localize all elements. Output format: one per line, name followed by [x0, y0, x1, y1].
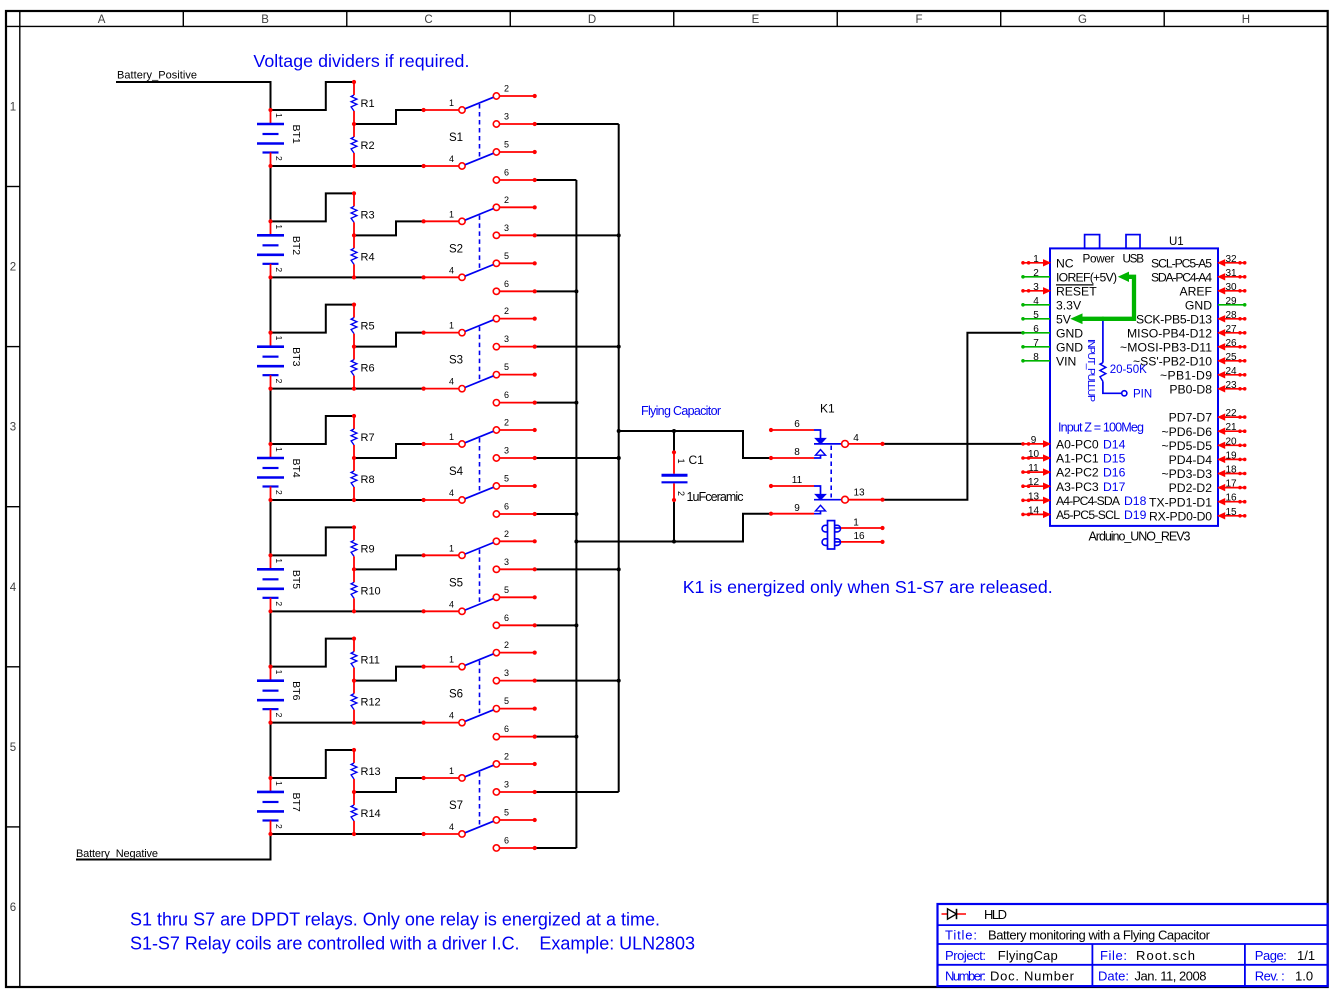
svg-text:18: 18: [1225, 465, 1237, 476]
svg-text:Input Z = 100Meg: Input Z = 100Meg: [1058, 421, 1144, 435]
svg-text:4: 4: [10, 582, 17, 594]
svg-text:1: 1: [449, 766, 454, 776]
svg-text:Battery_Negative: Battery_Negative: [76, 848, 158, 860]
svg-text:5V: 5V: [1056, 312, 1072, 326]
svg-text:20: 20: [1225, 436, 1237, 447]
svg-text:4: 4: [449, 265, 454, 275]
svg-text:F: F: [915, 14, 922, 26]
svg-text:BT5: BT5: [290, 570, 302, 589]
svg-text:E: E: [752, 14, 760, 26]
svg-text:2: 2: [676, 491, 686, 496]
svg-text:D17: D17: [1103, 480, 1126, 494]
svg-text:Battery monitoring with a Flyi: Battery monitoring with a Flying Capacit…: [988, 928, 1211, 943]
svg-text:4: 4: [1033, 296, 1039, 307]
svg-text:4: 4: [449, 377, 454, 387]
svg-text:3: 3: [504, 779, 509, 789]
svg-text:BT2: BT2: [290, 236, 302, 255]
svg-text:4: 4: [449, 822, 454, 832]
svg-text:RX-PD0-D0: RX-PD0-D0: [1149, 509, 1212, 523]
svg-text:6: 6: [1033, 324, 1039, 335]
svg-text:D15: D15: [1103, 452, 1126, 466]
svg-text:6: 6: [504, 501, 509, 511]
svg-text:1: 1: [853, 518, 859, 529]
svg-text:13: 13: [853, 488, 865, 499]
svg-text:31: 31: [1225, 268, 1237, 279]
svg-text:D18: D18: [1124, 494, 1147, 508]
svg-text:Battery_Positive: Battery_Positive: [117, 70, 197, 82]
svg-text:1: 1: [274, 558, 284, 563]
svg-text:Arduino_UNO_REV3: Arduino_UNO_REV3: [1089, 530, 1191, 544]
svg-text:2: 2: [504, 417, 509, 427]
svg-text:SCK-PB5-D13: SCK-PB5-D13: [1136, 312, 1212, 326]
svg-text:PD7-D7: PD7-D7: [1169, 411, 1213, 425]
svg-text:D19: D19: [1124, 508, 1147, 522]
svg-text:K1 is energized only when S1-S: K1 is energized only when S1-S7 are rele…: [683, 577, 1053, 597]
svg-text:5: 5: [504, 140, 509, 150]
svg-text:5: 5: [504, 807, 509, 817]
svg-text:2: 2: [274, 379, 284, 384]
svg-text:19: 19: [1225, 450, 1237, 461]
svg-text:5: 5: [504, 585, 509, 595]
svg-text:G: G: [1078, 14, 1087, 26]
svg-text:1: 1: [449, 321, 454, 331]
svg-text:6: 6: [504, 613, 509, 623]
svg-text:A4-PC4-SDA: A4-PC4-SDA: [1056, 494, 1121, 508]
svg-text:6: 6: [794, 419, 800, 430]
svg-text:3: 3: [504, 334, 509, 344]
svg-text:S1-S7 Relay coils are controll: S1-S7 Relay coils are controlled with a …: [130, 933, 695, 953]
svg-text:16: 16: [1225, 493, 1237, 504]
svg-text:IOREF(+5V): IOREF(+5V): [1056, 270, 1117, 284]
svg-text:R8: R8: [361, 474, 375, 486]
svg-text:R2: R2: [361, 140, 375, 152]
svg-text:BT6: BT6: [290, 681, 302, 700]
svg-text:3: 3: [504, 557, 509, 567]
svg-text:16: 16: [853, 531, 865, 542]
svg-text:2: 2: [274, 156, 284, 161]
svg-text:1: 1: [449, 98, 454, 108]
svg-text:5: 5: [504, 696, 509, 706]
svg-text:27: 27: [1225, 324, 1237, 335]
svg-text:2: 2: [504, 529, 509, 539]
svg-text:29: 29: [1225, 296, 1237, 307]
svg-text:5: 5: [504, 473, 509, 483]
svg-text:5: 5: [504, 251, 509, 261]
svg-text:1: 1: [274, 447, 284, 452]
svg-text:BT4: BT4: [290, 458, 302, 477]
svg-text:1: 1: [274, 224, 284, 229]
svg-text:3: 3: [504, 112, 509, 122]
svg-text:C1: C1: [689, 453, 705, 467]
svg-text:R9: R9: [361, 543, 375, 555]
svg-text:BT1: BT1: [290, 125, 302, 144]
svg-text:2: 2: [504, 306, 509, 316]
svg-text:2: 2: [504, 751, 509, 761]
svg-text:6: 6: [504, 724, 509, 734]
svg-text:20-50K: 20-50K: [1110, 364, 1147, 376]
svg-text:5: 5: [504, 362, 509, 372]
svg-text:3: 3: [504, 668, 509, 678]
svg-text:INPUT_PULLUP: INPUT_PULLUP: [1085, 339, 1097, 402]
svg-text:17: 17: [1225, 479, 1237, 490]
svg-text:1: 1: [274, 781, 284, 786]
svg-text:2: 2: [274, 713, 284, 718]
svg-text:PD4-D4: PD4-D4: [1169, 453, 1213, 467]
svg-text:S5: S5: [449, 577, 463, 589]
svg-text:1/1: 1/1: [1297, 948, 1315, 963]
svg-text:A2-PC2: A2-PC2: [1056, 466, 1099, 480]
svg-text:4: 4: [449, 488, 454, 498]
svg-text:25: 25: [1225, 352, 1237, 363]
svg-text:R6: R6: [361, 363, 375, 375]
svg-text:3: 3: [504, 445, 509, 455]
svg-text:S6: S6: [449, 689, 463, 701]
svg-text:~PD5-D5: ~PD5-D5: [1162, 439, 1213, 453]
svg-text:9: 9: [794, 503, 800, 514]
svg-text:~PD6-D6: ~PD6-D6: [1162, 425, 1213, 439]
svg-text:PD2-D2: PD2-D2: [1169, 481, 1213, 495]
svg-text:D14: D14: [1103, 438, 1126, 452]
svg-text:R5: R5: [361, 321, 375, 333]
svg-text:R14: R14: [361, 808, 381, 820]
svg-text:22: 22: [1225, 408, 1237, 419]
svg-text:A0-PC0: A0-PC0: [1056, 438, 1099, 452]
svg-text:2: 2: [504, 195, 509, 205]
svg-text:Jan. 11, 2008: Jan. 11, 2008: [1135, 969, 1207, 984]
svg-text:28: 28: [1225, 310, 1237, 321]
svg-text:S4: S4: [449, 466, 464, 478]
svg-text:1: 1: [274, 336, 284, 341]
svg-text:26: 26: [1225, 338, 1237, 349]
svg-text:2: 2: [1033, 268, 1039, 279]
svg-text:R13: R13: [361, 766, 381, 778]
svg-text:5: 5: [1033, 310, 1039, 321]
svg-text:24: 24: [1225, 366, 1237, 377]
svg-text:PIN: PIN: [1133, 388, 1152, 400]
svg-text:S1: S1: [449, 132, 463, 144]
svg-text:B: B: [261, 14, 269, 26]
svg-text:R12: R12: [361, 697, 381, 709]
svg-text:SCL-PC5-A5: SCL-PC5-A5: [1151, 256, 1212, 270]
svg-text:Doc. Number: Doc. Number: [990, 969, 1075, 984]
svg-text:Number:: Number:: [945, 969, 986, 984]
svg-text:A1-PC1: A1-PC1: [1056, 452, 1099, 466]
svg-text:2: 2: [274, 824, 284, 829]
svg-text:2: 2: [274, 267, 284, 272]
svg-text:4: 4: [853, 433, 859, 444]
svg-text:6: 6: [504, 279, 509, 289]
svg-text:4: 4: [449, 154, 454, 164]
svg-text:HLD: HLD: [984, 907, 1007, 922]
svg-text:1: 1: [449, 432, 454, 442]
svg-text:S7: S7: [449, 800, 463, 812]
svg-text:D16: D16: [1103, 466, 1126, 480]
svg-text:~PB1-D9: ~PB1-D9: [1160, 368, 1212, 382]
svg-text:6: 6: [504, 390, 509, 400]
svg-text:1: 1: [676, 459, 686, 464]
svg-text:~PD3-D3: ~PD3-D3: [1162, 467, 1213, 481]
svg-text:9: 9: [1031, 435, 1037, 446]
svg-text:23: 23: [1225, 380, 1237, 391]
svg-text:R7: R7: [361, 432, 375, 444]
svg-text:R4: R4: [361, 251, 375, 263]
svg-text:2: 2: [10, 262, 16, 274]
svg-text:1: 1: [449, 655, 454, 665]
svg-text:1: 1: [10, 101, 16, 113]
svg-text:1.0: 1.0: [1295, 969, 1313, 984]
svg-text:A5-PC5-SCL: A5-PC5-SCL: [1056, 508, 1120, 522]
svg-text:Project:: Project:: [945, 948, 986, 963]
svg-text:C: C: [424, 14, 432, 26]
svg-text:21: 21: [1225, 422, 1237, 433]
svg-text:1: 1: [274, 670, 284, 675]
svg-text:A: A: [98, 14, 106, 26]
svg-text:1: 1: [449, 543, 454, 553]
svg-text:GND: GND: [1056, 340, 1083, 354]
svg-text:PB0-D8: PB0-D8: [1169, 382, 1212, 396]
svg-text:Rev. :: Rev. :: [1255, 969, 1285, 984]
svg-text:H: H: [1242, 14, 1250, 26]
svg-text:MISO-PB4-D12: MISO-PB4-D12: [1127, 326, 1212, 340]
svg-text:R1: R1: [361, 98, 375, 110]
svg-text:RESET: RESET: [1056, 284, 1097, 298]
svg-text:~MOSI-PB3-D11: ~MOSI-PB3-D11: [1120, 340, 1212, 354]
svg-text:U1: U1: [1169, 236, 1184, 248]
svg-text:6: 6: [504, 168, 509, 178]
svg-text:AREF: AREF: [1179, 284, 1212, 298]
svg-text:2: 2: [504, 84, 509, 94]
svg-text:11: 11: [792, 475, 803, 486]
svg-text:1: 1: [274, 113, 284, 118]
svg-text:7: 7: [1033, 338, 1039, 349]
svg-text:D: D: [588, 14, 596, 26]
svg-text:SDA-PC4-A4: SDA-PC4-A4: [1151, 270, 1212, 284]
svg-text:K1: K1: [820, 402, 835, 416]
svg-text:2: 2: [274, 601, 284, 606]
svg-text:Flying Capacitor: Flying Capacitor: [641, 404, 721, 418]
svg-text:1: 1: [449, 209, 454, 219]
svg-text:FlyingCap: FlyingCap: [998, 948, 1058, 963]
svg-text:4: 4: [449, 599, 454, 609]
svg-text:VIN: VIN: [1056, 354, 1076, 368]
svg-text:BT7: BT7: [290, 792, 302, 811]
svg-text:Power: Power: [1083, 253, 1115, 266]
svg-text:S3: S3: [449, 355, 463, 367]
svg-text:BT3: BT3: [290, 347, 302, 366]
svg-text:3: 3: [10, 422, 16, 434]
svg-text:3: 3: [504, 223, 509, 233]
svg-text:R10: R10: [361, 585, 381, 597]
svg-text:5: 5: [10, 742, 16, 754]
svg-text:R11: R11: [361, 655, 380, 667]
svg-text:A3-PC3: A3-PC3: [1056, 480, 1099, 494]
svg-text:6: 6: [504, 835, 509, 845]
svg-text:Page:: Page:: [1255, 948, 1287, 963]
svg-text:2: 2: [274, 490, 284, 495]
svg-text:GND: GND: [1185, 298, 1212, 312]
svg-text:3.3V: 3.3V: [1056, 298, 1082, 312]
svg-text:15: 15: [1225, 507, 1237, 518]
svg-text:1uFceramic: 1uFceramic: [687, 490, 744, 504]
svg-text:R3: R3: [361, 209, 375, 221]
svg-text:File:: File:: [1100, 948, 1127, 963]
svg-text:6: 6: [10, 902, 16, 914]
svg-text:2: 2: [504, 640, 509, 650]
svg-text:30: 30: [1225, 282, 1237, 293]
svg-text:3: 3: [1033, 282, 1039, 293]
svg-text:NC: NC: [1056, 256, 1074, 270]
svg-text:TX-PD1-D1: TX-PD1-D1: [1149, 495, 1212, 509]
svg-text:4: 4: [449, 711, 454, 721]
svg-text:GND: GND: [1056, 326, 1083, 340]
svg-text:32: 32: [1225, 254, 1237, 265]
svg-text:USB: USB: [1123, 253, 1145, 266]
svg-text:S1 thru S7 are DPDT relays. On: S1 thru S7 are DPDT relays. Only one rel…: [130, 910, 660, 930]
svg-text:S2: S2: [449, 243, 463, 255]
svg-text:1: 1: [1033, 254, 1039, 265]
svg-text:Root.sch: Root.sch: [1136, 948, 1195, 963]
svg-text:Title:: Title:: [945, 928, 977, 943]
svg-text:8: 8: [794, 447, 800, 458]
svg-text:8: 8: [1033, 352, 1039, 363]
svg-text:Date:: Date:: [1098, 969, 1129, 984]
svg-text:Voltage dividers if required.: Voltage dividers if required.: [253, 51, 469, 71]
